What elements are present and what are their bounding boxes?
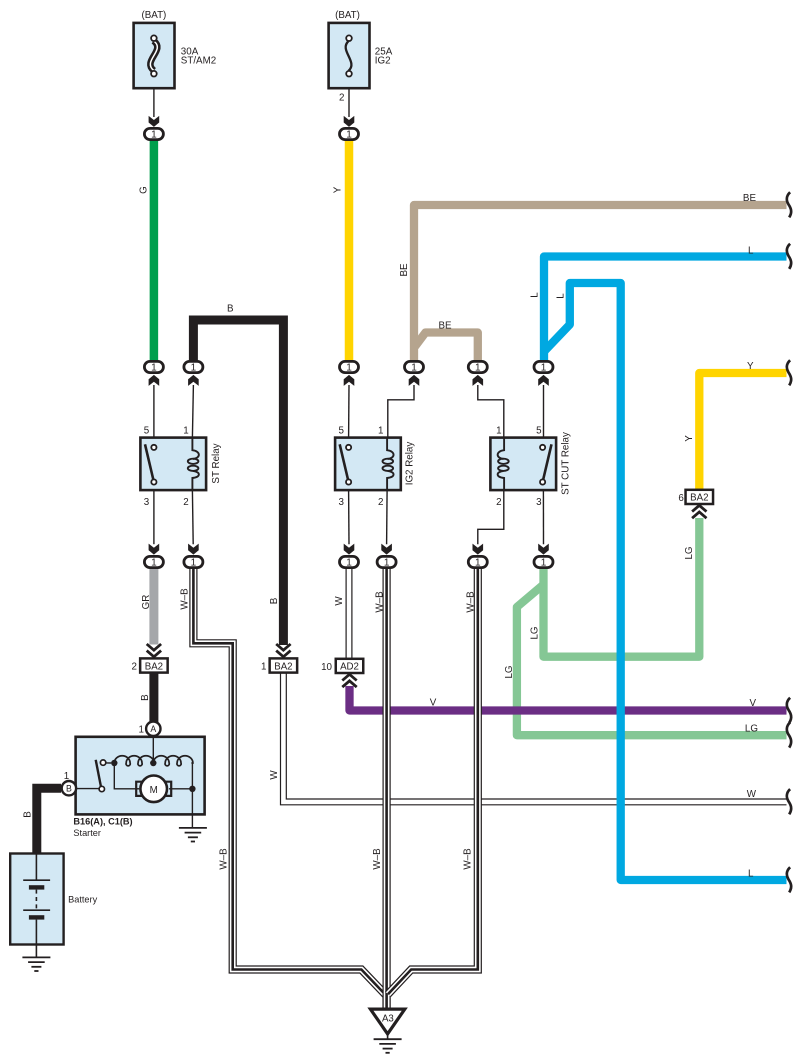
starter terminal B — [62, 781, 76, 795]
svg-text:5: 5 — [536, 426, 542, 437]
node 1 oval BE feed of IG2 relay pin 1 — [405, 361, 424, 373]
ST CUT relay pin 3 lead — [542, 490, 544, 544]
svg-text:ST CUT Relay: ST CUT Relay — [561, 432, 572, 495]
svg-text:3: 3 — [144, 497, 150, 508]
junction dot right motor lead — [189, 786, 195, 792]
svg-text:L: L — [529, 292, 540, 298]
connector BA2 pin 1 — [276, 644, 290, 657]
wire L blue to right edge top — [544, 257, 787, 362]
svg-text:V: V — [749, 698, 756, 709]
fuse F2 pin 2 wire — [348, 88, 350, 117]
wire Y yellow from fuse F2 — [345, 140, 354, 361]
break symbol LG right edge — [787, 722, 791, 747]
svg-text:B16(A), C1(B): B16(A), C1(B) — [73, 817, 132, 827]
wire V violet from AD2 to right edge — [350, 686, 787, 711]
contact to coil dot — [106, 762, 111, 764]
wire W white from BA2 pin 1 to right edge — [283, 673, 786, 802]
switch contact circle — [100, 760, 105, 765]
svg-text:Y: Y — [332, 186, 343, 193]
wire W-B from ST CUT relay pin 2 node to ground A3 — [388, 568, 478, 994]
relay box IG2 Relay — [335, 438, 401, 491]
wire W-B from IG2 relay pin 2 node to ground A3 — [383, 568, 391, 1009]
svg-text:1: 1 — [183, 426, 188, 437]
svg-text:W–B: W–B — [218, 848, 229, 870]
switch contact line from B — [76, 788, 99, 790]
svg-text:Y: Y — [747, 361, 754, 372]
svg-text:A: A — [150, 724, 156, 734]
break symbol W right edge — [787, 789, 791, 814]
svg-text:BA2: BA2 — [690, 493, 708, 504]
connector arrow above ST CUT relay pin 3 node — [538, 544, 549, 555]
connector arrow above IG2 relay pin 2 node — [381, 544, 392, 555]
wire W-B from ST relay pin 2 node to ground A3 — [193, 568, 386, 1009]
svg-text:2: 2 — [496, 497, 501, 508]
svg-text:(BAT): (BAT) — [141, 10, 166, 21]
svg-text:LG: LG — [745, 724, 758, 735]
fuse F1 30A ST/AM2 — [134, 10, 217, 88]
node 1 oval below fuse F1 — [144, 128, 163, 140]
ST relay pin 1 lead — [192, 385, 193, 438]
svg-text:5: 5 — [144, 426, 150, 437]
wire BE branch to ST CUT relay node — [415, 333, 478, 362]
connector arrow above ST relay pin 3 node — [149, 544, 160, 555]
svg-text:BE: BE — [743, 193, 757, 204]
svg-text:B: B — [269, 597, 280, 604]
field coil right — [153, 756, 193, 766]
connector arrow into node 1 below F2 — [344, 116, 355, 127]
IG2 relay pin 1 lead from BE node — [388, 385, 414, 438]
svg-text:BA2: BA2 — [274, 661, 292, 672]
svg-text:LG: LG — [684, 546, 695, 559]
wire motor right to dot and ground — [169, 789, 192, 828]
svg-text:3: 3 — [338, 497, 344, 508]
wire LG branch to right edge — [517, 585, 787, 736]
svg-text:IG2 Relay: IG2 Relay — [405, 442, 416, 486]
relay box ST Relay — [140, 438, 206, 491]
node 1 oval below fuse F2 — [340, 128, 359, 140]
battery — [10, 854, 97, 958]
wire G green from fuse F1 — [150, 140, 159, 361]
node 1 oval below ST relay pin 2 — [184, 556, 203, 568]
svg-text:2: 2 — [339, 93, 344, 104]
wire LG from ST CUT relay node to BA2 pin 6 — [544, 518, 700, 657]
junction dot left coil end — [111, 760, 117, 766]
svg-text:W: W — [334, 596, 345, 606]
break symbol L right edge top — [787, 244, 791, 269]
ST relay pin 2 lead — [191, 490, 194, 544]
svg-text:W–B: W–B — [466, 591, 477, 613]
svg-text:V: V — [430, 698, 437, 709]
svg-text:W: W — [269, 770, 280, 780]
svg-text:A3: A3 — [382, 1013, 394, 1024]
svg-text:1: 1 — [378, 426, 383, 437]
node 1 oval above IG2 relay pin 5 — [340, 361, 359, 373]
svg-text:Y: Y — [684, 435, 695, 442]
node 1 oval BE feed of ST CUT relay pin 1 — [468, 361, 487, 373]
svg-text:6: 6 — [678, 493, 684, 504]
wire B black loop to BA2 pin 1 — [193, 320, 283, 645]
wire B black battery to starter terminal B — [37, 788, 61, 854]
connector arrow above ST relay pin 2 node — [188, 544, 199, 555]
wire GR gray — [149, 568, 158, 645]
svg-text:W–B: W–B — [463, 848, 474, 870]
svg-text:L: L — [556, 293, 567, 299]
ground below starter — [179, 828, 207, 842]
ST relay pin 5 lead — [153, 385, 155, 438]
break symbol BE right edge — [787, 192, 791, 217]
svg-text:10: 10 — [321, 662, 332, 673]
ground below battery — [22, 957, 50, 971]
svg-text:LG: LG — [530, 626, 541, 639]
break symbol Y right edge — [787, 360, 791, 385]
svg-text:5: 5 — [338, 426, 344, 437]
wire B black BA2 pin 2 to starter terminal A — [149, 673, 158, 722]
svg-text:2: 2 — [378, 497, 383, 508]
svg-text:L: L — [748, 869, 754, 880]
svg-text:M: M — [150, 785, 158, 796]
IG2 relay pin 2 lead — [386, 490, 389, 544]
svg-text:2: 2 — [183, 497, 188, 508]
svg-text:B: B — [66, 784, 72, 794]
motor M — [136, 788, 139, 790]
fuse F1 pin wire — [153, 88, 155, 117]
svg-text:1: 1 — [64, 771, 69, 782]
svg-text:L: L — [748, 246, 754, 257]
ST CUT relay pin 5 lead — [543, 385, 545, 438]
svg-text:BE: BE — [399, 263, 410, 277]
wire Y yellow right side to BA2 pin 6 — [699, 373, 786, 490]
svg-text:W–B: W–B — [180, 588, 191, 610]
node 1 oval below ST CUT relay pin 3 — [534, 556, 553, 568]
wire L blue branch via long vertical to right edge bottom — [545, 283, 787, 880]
svg-text:W: W — [747, 789, 757, 800]
svg-text:ST Relay: ST Relay — [211, 443, 222, 483]
svg-text:BA2: BA2 — [145, 661, 163, 672]
svg-text:3: 3 — [536, 497, 542, 508]
svg-text:W–B: W–B — [372, 848, 383, 870]
svg-text:B: B — [227, 304, 234, 315]
connector arrow below it — [473, 375, 484, 386]
ST CUT relay pin 2 lead — [478, 490, 504, 544]
svg-text:LG: LG — [504, 665, 515, 678]
connector arrow above IG2 relay pin 3 node — [344, 544, 355, 555]
starter terminal A — [146, 722, 160, 736]
svg-text:B: B — [23, 811, 34, 818]
node 1 oval below ST CUT relay pin 2 — [468, 556, 487, 568]
node 1 oval below IG2 relay pin 2 — [377, 556, 396, 568]
svg-text:B: B — [140, 694, 151, 701]
wire W white from IG2 relay node to AD2 — [346, 568, 353, 659]
connector BA2 pin 6 — [686, 490, 714, 504]
connector arrow below it — [188, 375, 199, 386]
svg-text:ST/AM2: ST/AM2 — [181, 56, 216, 67]
connector arrow below it — [538, 375, 549, 386]
svg-text:BE: BE — [438, 321, 452, 332]
switch pivot circle — [99, 786, 104, 791]
svg-text:W–B: W–B — [375, 591, 386, 613]
connector arrow below it — [149, 375, 160, 386]
relay box ST CUT Relay (mirrored) — [490, 438, 556, 491]
node 1 oval below IG2 relay pin 3 — [340, 556, 359, 568]
svg-text:Starter: Starter — [73, 828, 101, 838]
starter box B16(A) C1(B) — [76, 736, 205, 828]
connector arrow below it — [409, 375, 420, 386]
wire coil to motor left — [114, 763, 137, 789]
wire right coil end down — [191, 763, 193, 789]
wire BE beige top horizontal to right edge — [414, 205, 787, 361]
svg-text:1: 1 — [139, 725, 144, 736]
svg-text:GR: GR — [141, 595, 152, 610]
svg-text:1: 1 — [261, 662, 266, 673]
svg-text:AD2: AD2 — [340, 662, 359, 673]
node 1 oval above ST relay pin 1 — [184, 361, 203, 373]
ground point A3 — [370, 1009, 404, 1053]
svg-text:G: G — [138, 186, 149, 194]
switch blade — [96, 760, 101, 787]
connector BA2 pin 2 — [147, 644, 161, 657]
svg-text:IG2: IG2 — [375, 56, 391, 67]
break symbol L right edge bottom — [787, 867, 791, 892]
IG2 relay pin 5 lead — [348, 385, 350, 438]
ST CUT relay pin 1 lead from BE node — [478, 385, 504, 438]
node 1 oval L feed of ST CUT relay pin 5 — [534, 361, 553, 373]
connector arrow into node 1 below F1 — [149, 116, 160, 127]
svg-text:(BAT): (BAT) — [335, 10, 360, 21]
node 1 oval below ST relay pin 3 — [144, 556, 163, 568]
svg-text:Battery: Battery — [68, 895, 98, 905]
connector AD2 pin 10 — [336, 659, 364, 673]
break symbol V right edge — [787, 698, 791, 723]
lead from terminal A — [152, 736, 154, 763]
connector arrow below it — [344, 375, 355, 386]
IG2 relay pin 3 lead — [348, 490, 350, 544]
fuse F2 25A IG2 — [329, 10, 393, 88]
field coil left — [114, 756, 154, 766]
svg-text:1: 1 — [496, 426, 501, 437]
junction dot at A lead — [150, 760, 156, 766]
svg-text:2: 2 — [131, 662, 136, 673]
connector arrow above ST CUT relay pin 2 node — [473, 544, 484, 555]
node 1 oval above ST relay pin 5 — [144, 361, 163, 373]
ST relay pin 3 lead — [153, 490, 155, 544]
